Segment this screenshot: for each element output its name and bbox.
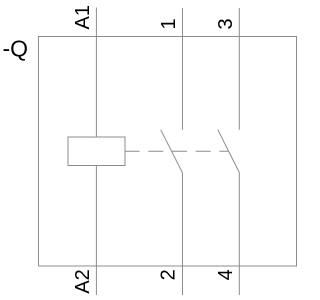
contact arm (NO contact 3-4) xyxy=(218,130,240,173)
wire 1-2 top segment xyxy=(182,8,184,130)
wire 3-4 bottom segment xyxy=(238,173,240,296)
svg-text:4: 4 xyxy=(215,269,237,280)
svg-text:A2: A2 xyxy=(72,269,94,293)
svg-text:3: 3 xyxy=(215,18,237,29)
enclosure box xyxy=(39,37,297,267)
wire 1-2 bottom segment xyxy=(182,173,184,296)
coil K (operating coil rectangle) xyxy=(68,137,125,166)
wire 3-4 top segment xyxy=(238,8,240,130)
svg-text:2: 2 xyxy=(158,269,180,280)
wire xyxy=(95,166,97,296)
svg-text:A1: A1 xyxy=(72,5,94,29)
actuator dashed link xyxy=(125,150,229,152)
contact arm (NO contact 1-2) xyxy=(161,130,183,173)
wire A1-A2 (coil wire, x=96.4) xyxy=(95,8,97,138)
svg-text:-Q: -Q xyxy=(3,36,29,62)
svg-text:1: 1 xyxy=(158,18,180,29)
